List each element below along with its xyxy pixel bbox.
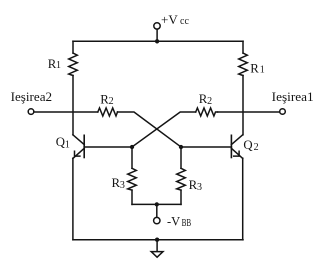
resistor R2 left (zigzag) — [98, 108, 118, 116]
wire: R2 left tail and cross-coupling diagonal to node B — [118, 112, 182, 147]
label Ieşirea1 — [272, 90, 314, 104]
svg-text:Ieşirea2: Ieşirea2 — [11, 90, 53, 104]
svg-text:+V: +V — [161, 12, 178, 27]
label Q1 — [56, 135, 70, 150]
transistor Q1 collector lead (diagonal) — [73, 135, 84, 145]
resistor R3 left (zigzag) — [128, 168, 137, 190]
wire: left output line — [34, 111, 98, 113]
label R2 (left) — [100, 92, 113, 107]
svg-text:3: 3 — [197, 182, 202, 193]
label Q2 — [243, 138, 258, 153]
svg-text:1: 1 — [56, 60, 61, 71]
wire: top supply rail — [73, 40, 243, 42]
resistor R3 right (zigzag) — [177, 168, 186, 190]
transistor Q1 base lead to node A — [84, 146, 132, 148]
transistor Q2 collector lead (diagonal) — [231, 135, 242, 145]
wire: right output line — [218, 111, 280, 113]
svg-text:2: 2 — [207, 96, 212, 107]
svg-text:R: R — [250, 61, 259, 75]
power terminal -VBB (stem and circle) — [154, 204, 160, 223]
transistor Q2 emitter lead with arrow — [231, 148, 242, 158]
svg-text:-V: -V — [167, 215, 180, 229]
label R1 (left) — [48, 57, 61, 71]
junction dot: VBB node — [155, 202, 159, 206]
junction dot: ground node on bottom rail — [155, 238, 159, 242]
wire: cross-coupling diagonal from node A to R2 right — [132, 112, 196, 147]
wire: R3 right bottom lead — [180, 190, 182, 204]
label Ieşirea2 — [11, 90, 53, 104]
junction dot: Vcc node on top rail — [155, 39, 159, 43]
svg-text:2: 2 — [254, 142, 259, 153]
label R2 (right) — [199, 92, 212, 107]
svg-text:1: 1 — [260, 64, 265, 75]
svg-text:cc: cc — [180, 16, 189, 27]
output terminal Ieşirea2 (circle) — [28, 109, 34, 115]
label R1 (right) — [250, 61, 265, 75]
junction dot: node A (Q1 base) — [130, 145, 134, 149]
wire: Q2 emitter down to bottom rail — [242, 158, 244, 240]
svg-text:BB: BB — [182, 218, 192, 229]
label R3 (right) — [189, 178, 202, 193]
wire: VBB tie bar — [132, 203, 181, 205]
wire: bottom rail — [73, 239, 243, 241]
resistor R2 right (zigzag) — [196, 108, 218, 116]
svg-text:3: 3 — [120, 180, 125, 191]
resistor R1 right (zigzag) — [239, 53, 248, 76]
resistor R1 left (zigzag) — [69, 53, 78, 76]
transistor Q1 base bar — [83, 135, 85, 157]
ground symbol (stem and open triangle) — [151, 240, 163, 257]
svg-text:1: 1 — [65, 139, 70, 150]
wire: R3 left bottom lead — [131, 190, 133, 204]
wire: right branch middle (R1 to Q2 collector) — [242, 76, 244, 135]
svg-text:Ieşirea1: Ieşirea1 — [272, 90, 314, 104]
svg-text:2: 2 — [109, 96, 114, 107]
power terminal +Vcc (circle and stem) — [154, 23, 160, 42]
svg-text:Q: Q — [243, 138, 253, 152]
label -VBB — [167, 215, 191, 230]
wire: left branch middle (R1 to Q1 collector) — [72, 76, 74, 135]
junction dot: node B (Q2 base) — [179, 145, 183, 149]
wire: node A down to R3 left — [131, 147, 133, 168]
transistor Q2 base lead to node B — [181, 146, 231, 148]
wire: left branch top (rail to R1) — [72, 41, 74, 53]
label R3 (left) — [112, 176, 125, 191]
wire: right branch top (rail to R1) — [242, 41, 244, 53]
label +Vcc — [161, 12, 189, 27]
wire: Q1 emitter down to bottom rail — [72, 158, 74, 240]
transistor Q2 base bar — [230, 135, 232, 157]
transistor Q1 emitter lead with arrow — [73, 148, 84, 158]
wire: node B down to R3 right — [180, 147, 182, 168]
output terminal Ieşirea1 (circle) — [280, 109, 286, 115]
